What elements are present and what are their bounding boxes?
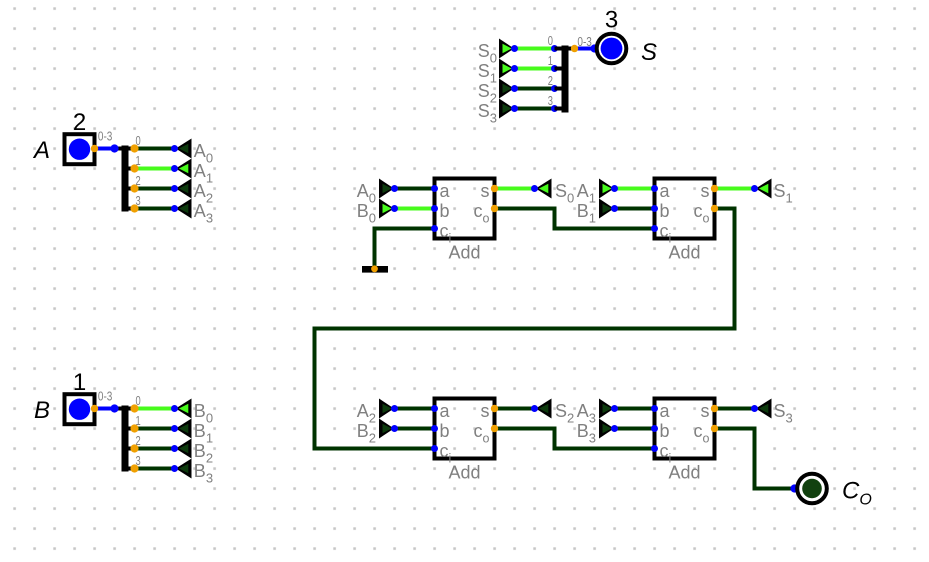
tunnel A1 (to U2.a) xyxy=(599,179,614,199)
svg-text:2: 2 xyxy=(73,109,86,136)
tunnel B1 (to U2.b) xyxy=(599,199,614,219)
node U2.a wire start xyxy=(611,185,618,192)
svg-text:0-3: 0-3 xyxy=(98,129,113,144)
merger output pin xyxy=(571,45,578,52)
tunnel B3 (to U4.b) xyxy=(599,419,614,439)
svg-text:b: b xyxy=(440,421,450,441)
node S1 out xyxy=(751,185,758,192)
tunnel A3 (in) xyxy=(176,199,192,219)
input pin U3.a xyxy=(431,405,438,412)
op-amp U1 (Add box) xyxy=(435,179,495,239)
output pin U4.co xyxy=(711,425,718,432)
svg-text:1: 1 xyxy=(73,369,86,396)
svg-text:1: 1 xyxy=(548,53,553,68)
svg-text:B: B xyxy=(34,397,50,424)
input pin U2.a xyxy=(651,185,658,192)
wire B bit0 xyxy=(135,407,175,411)
input pin U1.b xyxy=(431,205,438,212)
svg-text:Add: Add xyxy=(668,463,700,483)
splitter SP3 (S merger) xyxy=(555,47,575,51)
node B3 xyxy=(171,465,178,472)
ground symbol xyxy=(362,266,388,273)
output pin U3.co xyxy=(491,425,498,432)
svg-text:0: 0 xyxy=(136,393,141,408)
svg-text:0-3: 0-3 xyxy=(577,34,592,49)
node A2 xyxy=(171,185,178,192)
wire B bit3 xyxy=(135,467,175,471)
wire A bit2 xyxy=(135,187,175,191)
input pin U1.a xyxy=(431,185,438,192)
node S2 out xyxy=(531,405,538,412)
output CO (LED circle) xyxy=(797,474,827,504)
svg-text:3: 3 xyxy=(605,7,618,34)
node U4.b wire start xyxy=(611,425,618,432)
input pin U2.ci xyxy=(651,225,658,232)
bus wire A xyxy=(95,147,115,151)
svg-text:1: 1 xyxy=(136,153,141,168)
tunnel B1 (in) xyxy=(176,419,192,439)
tunnel S2 (out) xyxy=(536,399,552,419)
node U2.b wire start xyxy=(611,205,618,212)
wire A1 to U2.a xyxy=(615,187,655,191)
node S2 merge left xyxy=(511,85,518,92)
merger input pin 1 xyxy=(551,65,558,72)
input pin of output S xyxy=(590,44,598,52)
splitter SP2 output pin 2 xyxy=(130,444,138,452)
svg-text:Add: Add xyxy=(448,243,480,263)
output pin U4.s xyxy=(711,405,718,412)
svg-text:3: 3 xyxy=(548,93,553,108)
svg-text:1: 1 xyxy=(136,413,141,428)
tunnel S3 (out) xyxy=(756,399,772,419)
wire S bit2 xyxy=(515,87,555,91)
splitter SP1 output pin 1 xyxy=(130,164,138,172)
wire U2.s to S1 xyxy=(715,187,755,191)
tunnel B3 (in) xyxy=(176,459,192,479)
wire A3 to U4.a xyxy=(615,407,655,411)
svg-text:2: 2 xyxy=(136,433,141,448)
input B (button) xyxy=(65,394,95,424)
tunnel S1 (out to merger) xyxy=(499,59,514,79)
node U4.a wire start xyxy=(611,405,618,412)
node A0 xyxy=(171,145,178,152)
wire U2.co to U3.ci (long carry) xyxy=(315,209,735,449)
op-amp U4 (Add box) xyxy=(655,399,715,459)
input pin of splitter SP2 xyxy=(110,404,118,412)
svg-text:S: S xyxy=(641,39,657,66)
wire S bit1 xyxy=(515,67,555,71)
node S3 out xyxy=(751,405,758,412)
wire ground to U1.ci xyxy=(375,229,435,269)
splitter SP2 output pin 0 xyxy=(130,404,138,412)
node U1.a wire start xyxy=(391,185,398,192)
input pin U2.b xyxy=(651,205,658,212)
output pin U2.s xyxy=(711,185,718,192)
splitter SP1 output pin 0 xyxy=(130,144,138,152)
input pin U4.ci xyxy=(651,445,658,452)
bus wire B xyxy=(95,407,115,411)
input pin U4.b xyxy=(651,425,658,432)
tunnel A2 (to U3.a) xyxy=(379,399,394,419)
node B1 xyxy=(171,425,178,432)
svg-text:3: 3 xyxy=(136,193,141,208)
tunnel A2 (in) xyxy=(176,179,192,199)
svg-text:2: 2 xyxy=(136,173,141,188)
svg-text:s: s xyxy=(701,401,710,421)
output pin U1.s xyxy=(491,185,498,192)
wire U3.s to S2 xyxy=(495,407,535,411)
svg-text:a: a xyxy=(660,181,671,201)
merger input pin 0 xyxy=(551,45,558,52)
svg-text:b: b xyxy=(660,421,670,441)
wire A bit3 xyxy=(135,207,175,211)
output pin of input B xyxy=(91,405,98,412)
output pin U3.s xyxy=(491,405,498,412)
wire U3.co to U4.ci xyxy=(495,429,655,449)
wire S bit3 xyxy=(515,107,555,111)
wire A bit0 xyxy=(135,147,175,151)
splitter SP2 output pin 3 xyxy=(130,464,138,472)
node U3.a wire start xyxy=(391,405,398,412)
tunnel S0 (out) xyxy=(536,179,552,199)
ground pin xyxy=(371,265,378,272)
tunnel B2 (to U3.b) xyxy=(379,419,394,439)
svg-text:0: 0 xyxy=(548,33,553,48)
svg-text:s: s xyxy=(481,181,490,201)
wire B1 to U2.b xyxy=(615,207,655,211)
wire A bit1 xyxy=(135,167,175,171)
svg-text:A: A xyxy=(32,137,50,164)
merger input pin 3 xyxy=(551,105,558,112)
wire U1.s to S0 xyxy=(495,187,535,191)
tunnel S3 (out to merger) xyxy=(499,99,514,119)
input pin U3.ci xyxy=(431,445,438,452)
output pin U2.co xyxy=(711,205,718,212)
input A (button) xyxy=(65,134,95,164)
node U1.b wire start xyxy=(391,205,398,212)
svg-text:Add: Add xyxy=(668,243,700,263)
splitter SP2 output pin 1 xyxy=(130,424,138,432)
bus wire S xyxy=(575,47,595,51)
tunnel S1 (out) xyxy=(756,179,772,199)
input pin of output CO xyxy=(790,484,798,492)
svg-text:s: s xyxy=(481,401,490,421)
wire A0 to U1.a xyxy=(395,187,435,191)
wire U4.co to output CO xyxy=(715,429,795,489)
wire U4.s to S3 xyxy=(715,407,755,411)
tunnel A0 (in) xyxy=(176,139,192,159)
wire A2 to U3.a xyxy=(395,407,435,411)
node S1 merge left xyxy=(511,65,518,72)
splitter SP1 output pin 2 xyxy=(130,184,138,192)
tunnel A3 (to U4.a) xyxy=(599,399,614,419)
input pin U4.a xyxy=(651,405,658,412)
svg-text:0-3: 0-3 xyxy=(98,389,113,404)
merger input pin 2 xyxy=(551,85,558,92)
tunnel S0 (out to merger) xyxy=(499,39,514,59)
wire U1.co to U2.ci xyxy=(495,209,655,229)
splitter SP1 output pin 3 xyxy=(130,204,138,212)
wire B3 to U4.b xyxy=(615,427,655,431)
svg-text:Add: Add xyxy=(448,463,480,483)
wire B2 to U3.b xyxy=(395,427,435,431)
node A3 xyxy=(171,205,178,212)
svg-text:a: a xyxy=(440,401,451,421)
tunnel A0 (to U1.a) xyxy=(379,179,394,199)
wire B bit1 xyxy=(135,427,175,431)
svg-text:0: 0 xyxy=(136,133,141,148)
svg-text:a: a xyxy=(440,181,451,201)
svg-text:2: 2 xyxy=(548,73,553,88)
output pin of input A xyxy=(91,145,98,152)
svg-text:s: s xyxy=(701,181,710,201)
svg-text:3: 3 xyxy=(136,453,141,468)
svg-text:b: b xyxy=(660,201,670,221)
op-amp U2 (Add box) xyxy=(655,179,715,239)
node S0 out xyxy=(531,185,538,192)
node S3 merge left xyxy=(511,105,518,112)
splitter SP2 (B 4-bit) xyxy=(115,407,135,411)
svg-text:a: a xyxy=(660,401,671,421)
node B2 xyxy=(171,445,178,452)
svg-text:b: b xyxy=(440,201,450,221)
output S (LED circle) xyxy=(597,34,627,64)
node S0 merge left xyxy=(511,45,518,52)
output pin U1.co xyxy=(491,205,498,212)
tunnel B0 (in) xyxy=(176,399,192,419)
tunnel A1 (in) xyxy=(176,159,192,179)
wire S bit0 xyxy=(515,47,555,51)
tunnel S2 (out to merger) xyxy=(499,79,514,99)
tunnel B0 (to U1.b) xyxy=(379,199,394,219)
node A1 xyxy=(171,165,178,172)
node U3.b wire start xyxy=(391,425,398,432)
wire B0 to U1.b xyxy=(395,207,435,211)
tunnel B2 (in) xyxy=(176,439,192,459)
node B0 xyxy=(171,405,178,412)
input pin of splitter SP1 xyxy=(110,144,118,152)
op-amp U3 (Add box) xyxy=(435,399,495,459)
splitter SP1 (A 4-bit) xyxy=(115,147,135,151)
input pin U1.ci xyxy=(431,225,438,232)
input pin U3.b xyxy=(431,425,438,432)
wire B bit2 xyxy=(135,447,175,451)
